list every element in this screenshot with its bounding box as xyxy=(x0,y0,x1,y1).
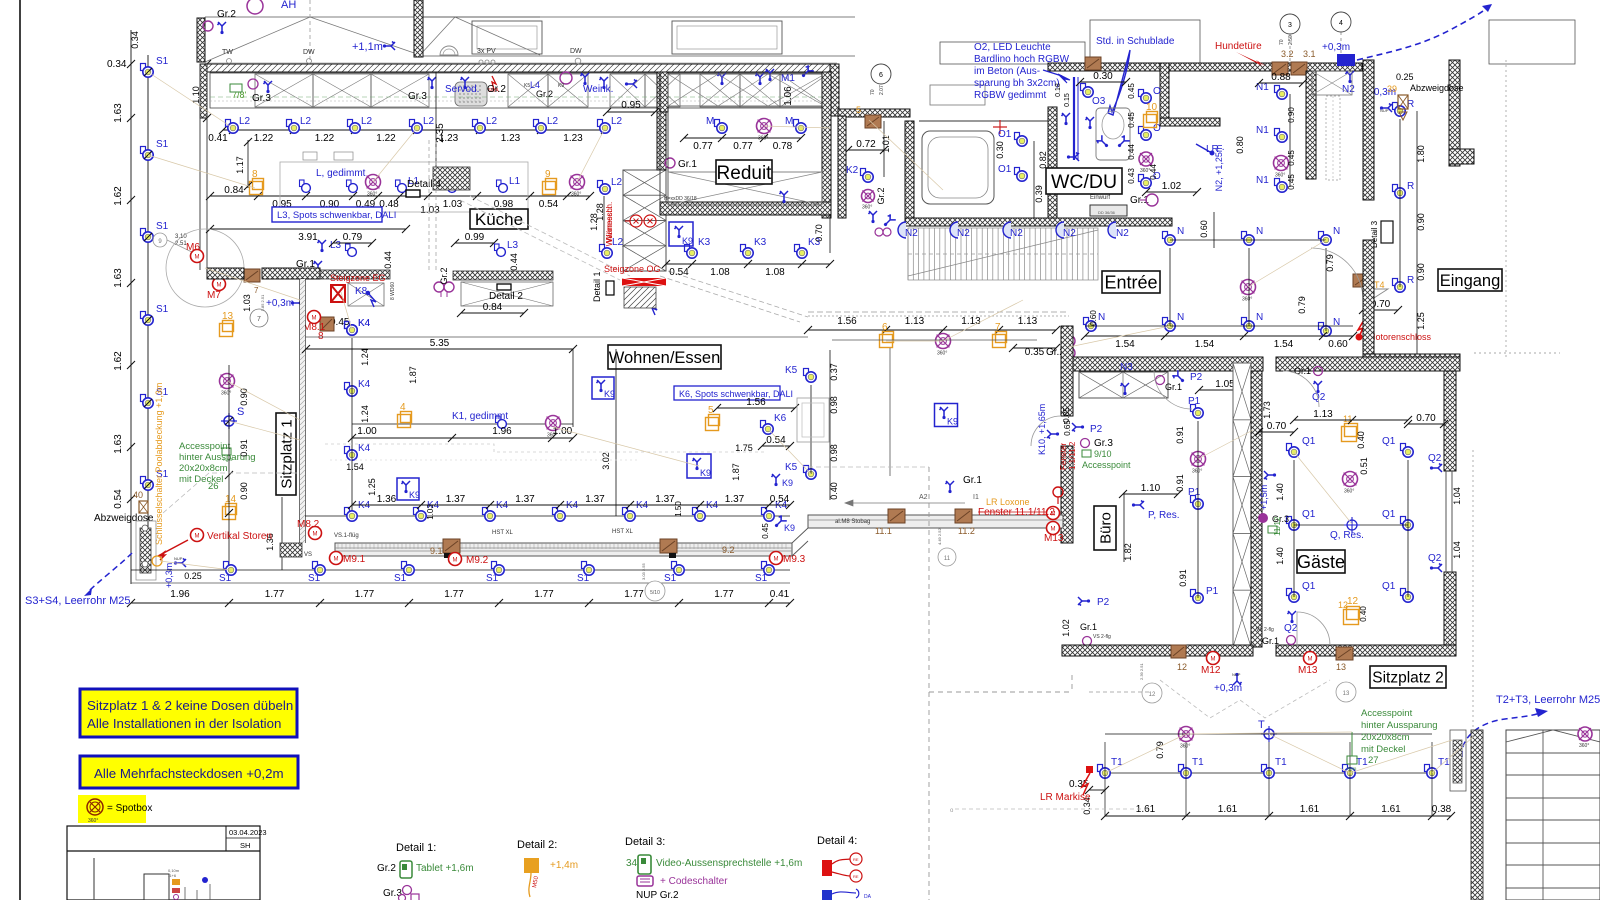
svg-text:N2: N2 xyxy=(1063,228,1076,239)
svg-text:M12: M12 xyxy=(1201,665,1221,676)
svg-text:N2: N2 xyxy=(1010,228,1023,239)
cabinet X-box 4 xyxy=(508,74,548,107)
svg-text:11.2: 11.2 xyxy=(958,526,975,536)
svg-text:0.54: 0.54 xyxy=(766,435,786,446)
Reduit bottom wall xyxy=(660,202,831,215)
svg-text:0.82: 0.82 xyxy=(1038,151,1048,169)
door boxes Hundetüre 3.2/3.1 xyxy=(1272,62,1288,75)
svg-text:Sitzplatz 1 & 2 keine Dosen dü: Sitzplatz 1 & 2 keine Dosen dübeln xyxy=(87,698,293,713)
svg-text:1.73: 1.73 xyxy=(1262,401,1272,419)
orange box 6 xyxy=(880,332,894,348)
svg-text:N: N xyxy=(1256,312,1263,323)
svg-text:L, gedimmt: L, gedimmt xyxy=(316,168,366,179)
dim 3.91 xyxy=(210,228,406,230)
svg-text:Gr.1: Gr.1 xyxy=(1165,382,1182,392)
bath room walls xyxy=(919,120,1048,122)
svg-text:O1: O1 xyxy=(998,129,1012,140)
svg-text:3x PV: 3x PV xyxy=(477,48,496,55)
Detail 1 rotated ref xyxy=(606,281,614,295)
svg-text:Fenster 11.1/11.2: Fenster 11.1/11.2 xyxy=(978,507,1055,518)
svg-text:4: 4 xyxy=(400,402,406,413)
svg-text:R: R xyxy=(1407,275,1414,286)
svg-text:1.40: 1.40 xyxy=(1275,547,1285,565)
orange box 9 xyxy=(543,179,557,195)
svg-text:Sitzplatz 1: Sitzplatz 1 xyxy=(278,419,295,488)
svg-text:M6: M6 xyxy=(186,242,200,253)
svg-text:0.60: 0.60 xyxy=(1089,310,1098,326)
svg-text:Vertikal Storen: Vertikal Storen xyxy=(207,531,272,542)
K9 box wohnen 1 xyxy=(592,377,614,399)
svg-text:Tablet +1,6m: Tablet +1,6m xyxy=(416,863,474,874)
stair treads xyxy=(1506,753,1600,888)
M12 red xyxy=(1207,652,1220,665)
svg-text:S1: S1 xyxy=(156,304,169,315)
svg-text:40: 40 xyxy=(133,490,143,500)
terrace dim chain xyxy=(1105,815,1451,817)
corner wall SW hatched xyxy=(280,543,302,557)
svg-text:RE: RE xyxy=(853,857,859,862)
svg-text:K4: K4 xyxy=(358,379,371,390)
svg-text:1.03: 1.03 xyxy=(443,199,463,210)
green stem line xyxy=(1351,732,1353,756)
svg-text:WC/DU: WC/DU xyxy=(1051,171,1117,193)
svg-text:1.62: 1.62 xyxy=(113,186,124,206)
svg-text:360°: 360° xyxy=(367,192,377,198)
svg-text:1.54: 1.54 xyxy=(1115,339,1135,350)
N2 halfmoon row on wall xyxy=(898,222,906,238)
svg-text:0.39: 0.39 xyxy=(1034,185,1044,203)
svg-text:1.82: 1.82 xyxy=(1123,543,1133,561)
svg-text:Detail 4:: Detail 4: xyxy=(817,835,857,847)
svg-text:T2+T3, Leerrohr M25: T2+T3, Leerrohr M25 xyxy=(1496,694,1600,706)
cabinet X-box 2 xyxy=(313,74,371,107)
svg-text:34: 34 xyxy=(626,858,638,869)
svg-text:14: 14 xyxy=(225,494,237,505)
svg-text:0.77: 0.77 xyxy=(733,141,753,152)
wall step down to court xyxy=(830,64,839,116)
svg-text:13: 13 xyxy=(222,311,234,322)
svg-text:Detail 2:: Detail 2: xyxy=(517,839,557,851)
bathtub xyxy=(922,131,994,204)
svg-text:0.18: 0.18 xyxy=(1055,83,1062,97)
svg-text:0.41: 0.41 xyxy=(770,589,790,600)
svg-text:S1: S1 xyxy=(577,573,590,584)
svg-text:M8.2: M8.2 xyxy=(297,519,320,530)
svg-text:al.M8 Stobag: al.M8 Stobag xyxy=(835,519,870,525)
svg-text:0.99: 0.99 xyxy=(465,232,485,243)
svg-text:0.79: 0.79 xyxy=(1155,741,1165,759)
K5 spots column xyxy=(804,369,817,383)
svg-text:0.30: 0.30 xyxy=(995,141,1005,159)
svg-text:Büro: Büro xyxy=(1097,512,1114,544)
exterior wall left upper xyxy=(200,64,207,118)
svg-text:L2: L2 xyxy=(547,116,559,127)
svg-text:Entrée: Entrée xyxy=(1104,272,1157,292)
dims L3 row xyxy=(333,242,372,244)
svg-text:T4: T4 xyxy=(1374,280,1385,290)
svg-text:0.15: 0.15 xyxy=(1064,93,1071,107)
spot L2-4 xyxy=(410,120,423,134)
svg-text:T1: T1 xyxy=(1192,757,1204,768)
svg-text:K9: K9 xyxy=(409,490,420,500)
WC fixtures right room xyxy=(1096,108,1130,160)
K9 box reduit xyxy=(669,222,693,246)
lamp AH xyxy=(247,0,263,14)
svg-text:Bardlino hoch RGBW: Bardlino hoch RGBW xyxy=(974,54,1070,65)
svg-text:1.77: 1.77 xyxy=(444,589,464,600)
svg-text:Gr.2: Gr.2 xyxy=(876,187,886,204)
svg-text:N2: N2 xyxy=(1116,228,1129,239)
orange box 13 xyxy=(220,321,234,337)
west wall of Wohnen xyxy=(299,279,301,543)
K2 spot xyxy=(861,169,874,183)
exterior wall right of entrance xyxy=(1449,60,1460,166)
green rj45 glyph xyxy=(222,448,231,455)
svg-text:L1: L1 xyxy=(509,176,521,187)
svg-text:1.61: 1.61 xyxy=(1218,804,1238,815)
svg-text:Wohnen/Essen: Wohnen/Essen xyxy=(609,349,721,367)
svg-text:S1: S1 xyxy=(156,221,169,232)
svg-text:1.77: 1.77 xyxy=(355,589,375,600)
svg-text:0.54: 0.54 xyxy=(539,199,559,210)
svg-text:Steigzone EG: Steigzone EG xyxy=(330,273,386,283)
svg-text:360°: 360° xyxy=(221,391,231,397)
svg-text:0.60: 0.60 xyxy=(1328,339,1348,350)
page frame left border xyxy=(19,0,21,900)
svg-text:26: 26 xyxy=(208,481,219,492)
orange box 10 xyxy=(1144,112,1158,128)
spot L2-7 xyxy=(598,120,611,134)
spot L2-6 xyxy=(534,120,547,134)
svg-text:0.91: 0.91 xyxy=(1178,569,1188,587)
svg-text:1.61: 1.61 xyxy=(1381,804,1401,815)
door 11.2 xyxy=(955,509,972,523)
svg-text:1.63: 1.63 xyxy=(113,434,124,454)
wall Eingang south xyxy=(1363,354,1460,368)
NUP +0,3m below wall xyxy=(1233,673,1242,685)
svg-text:T: T xyxy=(1258,719,1265,731)
room label Reduit xyxy=(716,160,772,184)
door 11.1 xyxy=(888,509,905,523)
window niche 2 xyxy=(672,21,782,54)
south wall buero xyxy=(1062,645,1253,656)
P2 switch top xyxy=(1172,370,1187,385)
corridor dim chain xyxy=(808,329,1056,331)
wall Entrée right vertical xyxy=(1363,60,1374,200)
tan utility lines xyxy=(148,72,1473,773)
svg-text:NUP: NUP xyxy=(1380,108,1389,113)
svg-text:3.03 2.55: 3.03 2.55 xyxy=(641,563,646,580)
svg-text:Servod.: Servod. xyxy=(445,84,479,95)
S switch circle xyxy=(224,416,234,426)
svg-text:S1: S1 xyxy=(156,139,169,150)
svg-text:VS 2-flg: VS 2-flg xyxy=(1093,634,1111,640)
svg-text:0.77: 0.77 xyxy=(693,141,713,152)
svg-text:0.60: 0.60 xyxy=(1199,220,1209,238)
Entrée N grid row 1 xyxy=(1163,232,1176,246)
svg-text:8: 8 xyxy=(318,331,324,342)
svg-text:RE: RE xyxy=(853,874,859,879)
svg-text:1.03: 1.03 xyxy=(426,504,435,520)
svg-text:3.2: 3.2 xyxy=(1281,49,1294,59)
canopy rect top-right xyxy=(1489,20,1575,64)
Reduit left wall xyxy=(660,72,668,112)
wall pier top xyxy=(414,0,423,57)
svg-text:im Beton (Aus-: im Beton (Aus- xyxy=(974,66,1040,77)
svg-text:K6, Spots schwenkbar, DALI: K6, Spots schwenkbar, DALI xyxy=(679,389,793,399)
hatched pool strip xyxy=(140,528,151,573)
svg-text:1.96: 1.96 xyxy=(170,589,190,600)
svg-text:0.85: 0.85 xyxy=(1062,407,1071,423)
room label Büro xyxy=(1094,506,1116,550)
svg-text:0.84: 0.84 xyxy=(483,302,503,313)
bottom intermediate line xyxy=(131,582,790,584)
door box 9.2 xyxy=(660,539,677,553)
stair walk line dashed xyxy=(908,253,1098,255)
svg-text:1.13: 1.13 xyxy=(905,316,925,327)
left dim chain lines xyxy=(130,30,132,584)
S1 spot chain left xyxy=(141,64,154,78)
svg-text:1.08: 1.08 xyxy=(765,267,785,278)
svg-text:P2: P2 xyxy=(1097,597,1110,608)
svg-text:K4: K4 xyxy=(636,500,649,511)
büro top wall xyxy=(1073,357,1263,371)
axis circle 11 xyxy=(938,548,956,566)
svg-text:M: M xyxy=(312,316,317,322)
roof niche right of court xyxy=(940,42,1085,64)
svg-text:T1: T1 xyxy=(1275,757,1287,768)
svg-text:1.37: 1.37 xyxy=(725,494,745,505)
svg-text:L2: L2 xyxy=(300,116,312,127)
svg-text:K6: K6 xyxy=(774,413,787,424)
door arc büro xyxy=(1154,371,1192,409)
svg-text:1.56: 1.56 xyxy=(837,316,857,327)
svg-text:L2: L2 xyxy=(611,177,623,188)
stairs outline xyxy=(1506,730,1600,900)
svg-text:0.54: 0.54 xyxy=(669,267,689,278)
P Res switch xyxy=(1132,501,1144,510)
M13 window circles xyxy=(1047,507,1060,520)
svg-text:S1: S1 xyxy=(219,573,232,584)
büro window band xyxy=(808,515,1063,528)
svg-text:DA: DA xyxy=(864,894,872,900)
svg-text:1.24: 1.24 xyxy=(360,348,370,366)
svg-text:L2: L2 xyxy=(611,116,623,127)
svg-text:M13: M13 xyxy=(1044,533,1064,544)
P1 spots xyxy=(1191,405,1204,419)
svg-text:360°: 360° xyxy=(1242,297,1252,303)
svg-text:3.1: 3.1 xyxy=(1303,49,1316,59)
gäste cross junction xyxy=(1347,520,1357,530)
svg-text:1.03: 1.03 xyxy=(420,205,440,216)
svg-text:M: M xyxy=(1308,657,1313,663)
svg-text:5: 5 xyxy=(856,105,861,115)
Motorenschloss xyxy=(1356,334,1363,341)
exterior wall top Hundetüre strip xyxy=(1169,63,1362,71)
svg-text:+0,3m: +0,3m xyxy=(266,298,294,309)
red cross mark xyxy=(993,120,1007,134)
wall kitchen south piece xyxy=(207,268,244,279)
blue note box K6 Spots xyxy=(674,386,780,400)
svg-text:1.04: 1.04 xyxy=(1452,487,1462,505)
switches court xyxy=(869,211,878,223)
svg-text:1.37: 1.37 xyxy=(585,494,605,505)
svg-text:1.87: 1.87 xyxy=(731,463,741,481)
svg-text:2.39 2.51: 2.39 2.51 xyxy=(1139,663,1144,680)
exterior wall top (Küche/Reduit) xyxy=(205,64,837,72)
svg-text:1.87: 1.87 xyxy=(408,366,418,384)
target near stairs xyxy=(1578,727,1592,741)
chimney shaft hatched xyxy=(433,167,470,190)
svg-text:M7: M7 xyxy=(207,290,221,301)
cabinet X-box 9 xyxy=(740,74,780,107)
svg-text:K5: K5 xyxy=(785,365,798,376)
svg-text:DW: DW xyxy=(570,48,582,55)
svg-text:S: S xyxy=(237,406,244,418)
bottom dim chain xyxy=(131,602,790,604)
Reduit cabinet big X xyxy=(668,172,822,205)
svg-text:RJ45: RJ45 xyxy=(1347,766,1357,771)
svg-text:0.90: 0.90 xyxy=(1416,213,1426,231)
svg-text:N: N xyxy=(1098,312,1105,323)
L3 spots row xyxy=(346,244,357,256)
svg-text:1.22: 1.22 xyxy=(376,133,396,144)
svg-text:NUP: NUP xyxy=(174,556,183,561)
svg-text:10: 10 xyxy=(1146,102,1158,113)
svg-text:360°: 360° xyxy=(937,351,947,357)
svg-text:1.05: 1.05 xyxy=(1215,379,1235,390)
svg-text:0.45: 0.45 xyxy=(1287,150,1296,166)
cabinet X-box 5 xyxy=(548,74,588,107)
svg-text:DW: DW xyxy=(303,49,315,56)
svg-text:N1: N1 xyxy=(1256,175,1269,186)
svg-text:S1: S1 xyxy=(156,56,169,67)
door swing arc entree xyxy=(1311,248,1363,300)
door gap arc Wohnen-Entree xyxy=(1031,416,1061,446)
svg-text:K9: K9 xyxy=(558,83,564,89)
target sitzplatz left xyxy=(220,374,235,389)
Gr.1 near Reduit xyxy=(665,158,675,168)
svg-text:1.1/11.2: 1.1/11.2 xyxy=(1068,441,1077,470)
svg-text:Weink.: Weink. xyxy=(583,84,613,95)
svg-text:sparung bh 3x2cm): sparung bh 3x2cm) xyxy=(974,78,1060,89)
T1 spot row xyxy=(1105,772,1432,774)
south window band xyxy=(335,543,792,556)
orange circle storen xyxy=(152,556,162,566)
Reduit M spot row xyxy=(684,137,801,139)
Steigzone EG red shaft box xyxy=(331,285,345,302)
svg-text:1.61: 1.61 xyxy=(1300,804,1320,815)
K4 left column xyxy=(345,322,358,336)
svg-text:0.91: 0.91 xyxy=(1175,474,1185,492)
svg-text:+1,4m: +1,4m xyxy=(550,860,578,871)
small circles on wall top xyxy=(227,58,581,64)
orange box 8 xyxy=(250,179,264,195)
svg-text:S3+S4, Leerrohr M25: S3+S4, Leerrohr M25 xyxy=(25,595,130,607)
middle counter hatched band xyxy=(453,271,553,280)
svg-text:RGBW gedimmt: RGBW gedimmt xyxy=(974,90,1046,101)
svg-text:1.37: 1.37 xyxy=(655,494,675,505)
svg-text:O: O xyxy=(1153,86,1161,97)
svg-text:1.54: 1.54 xyxy=(1195,339,1215,350)
south wall gaeste xyxy=(1276,645,1456,656)
svg-text:Gäste: Gäste xyxy=(1297,552,1345,572)
Steigzone EG counter hatched xyxy=(316,270,390,279)
svg-text:+0,3m: +0,3m xyxy=(1322,42,1350,53)
Reduit inner lines xyxy=(659,112,661,202)
svg-text:Reduit: Reduit xyxy=(717,163,773,184)
blue note box L3 Spots xyxy=(272,207,382,222)
arrow line A2 xyxy=(845,500,965,506)
svg-text:K2: K2 xyxy=(846,165,859,176)
svg-text:70: 70 xyxy=(870,89,876,95)
svg-text:M: M xyxy=(195,255,200,261)
svg-text:11/12: 11/12 xyxy=(1273,516,1282,536)
svg-text:1.03: 1.03 xyxy=(242,294,252,312)
Detail 2 reference box xyxy=(497,284,511,290)
axis circle 9 small xyxy=(153,233,167,247)
svg-text:1.96: 1.96 xyxy=(492,426,512,437)
exterior wall top WC/DU xyxy=(1048,63,1172,71)
svg-text:1.22: 1.22 xyxy=(254,133,274,144)
door M7 brown xyxy=(244,269,260,282)
cabinet X-box 8 xyxy=(700,74,740,107)
svg-text:Eingang: Eingang xyxy=(1440,272,1501,290)
svg-text:0.43: 0.43 xyxy=(1127,168,1136,184)
door 5 brown xyxy=(865,115,881,128)
svg-text:L2: L2 xyxy=(423,116,435,127)
svg-text:L2: L2 xyxy=(239,116,251,127)
R spot column xyxy=(1393,103,1406,117)
svg-text:1.02: 1.02 xyxy=(1061,619,1071,637)
cabinet X-box 1 xyxy=(255,74,313,107)
svg-text:Std. in Schublade: Std. in Schublade xyxy=(1096,36,1175,47)
svg-text:0.70: 0.70 xyxy=(814,224,824,242)
svg-text:1.13: 1.13 xyxy=(961,316,981,327)
svg-text:7: 7 xyxy=(995,322,1001,333)
purple pair entrance corridor xyxy=(1063,335,1075,347)
svg-text:Steigzone OG: Steigzone OG xyxy=(604,264,661,274)
dim chain L gedimmt row xyxy=(210,195,590,197)
svg-text:N: N xyxy=(1333,226,1340,237)
svg-text:= Spotbox: = Spotbox xyxy=(107,803,152,814)
svg-text:K4: K4 xyxy=(566,500,579,511)
dashed service lines kitchen top xyxy=(210,96,830,98)
svg-text:N1: N1 xyxy=(1256,125,1269,136)
svg-text:mit Deckel: mit Deckel xyxy=(1361,744,1405,755)
svg-text:39: 39 xyxy=(1387,84,1397,94)
svg-text:K5: K5 xyxy=(524,83,530,89)
gäste dims xyxy=(1294,419,1408,421)
svg-text:Accesspoint: Accesspoint xyxy=(179,441,231,452)
dashed duct lines kitchen xyxy=(428,140,430,270)
svg-text:1.25: 1.25 xyxy=(367,478,377,496)
svg-text:A2: A2 xyxy=(919,494,928,501)
svg-text:Alle Mehrfachsteckdosen +0,2m: Alle Mehrfachsteckdosen +0,2m xyxy=(94,766,284,781)
svg-text:0.35: 0.35 xyxy=(1025,347,1045,358)
svg-text:HST XL: HST XL xyxy=(492,530,514,536)
K4 bottom row xyxy=(305,515,790,517)
LR Markise red xyxy=(1086,766,1093,773)
K3 spot row xyxy=(685,245,698,259)
svg-text:0.34: 0.34 xyxy=(107,59,127,70)
window niche 1 xyxy=(472,21,542,54)
svg-text:AH: AH xyxy=(281,0,296,11)
Abzweigdose symbol xyxy=(1398,95,1408,109)
svg-text:NUP Gr.2: NUP Gr.2 xyxy=(636,890,679,900)
svg-text:360°: 360° xyxy=(1344,489,1354,495)
toilet glyphs xyxy=(1096,135,1111,150)
